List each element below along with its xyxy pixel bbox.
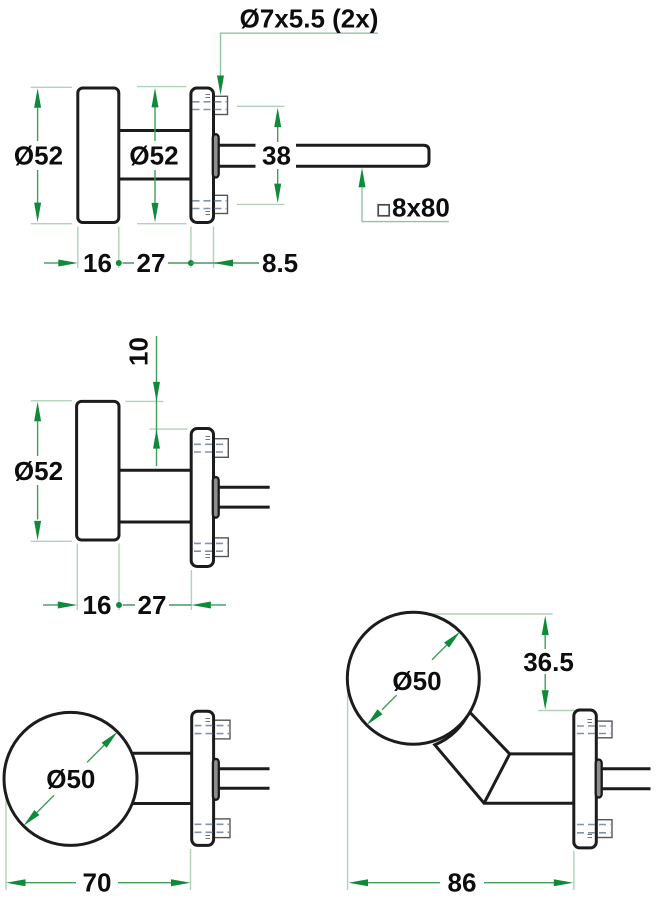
svg-text:70: 70 bbox=[83, 868, 112, 898]
wire: extension line below disc left edge bbox=[77, 227, 79, 269]
screw top (fig1) thread hidden lines bbox=[193, 101, 227, 103]
spindle hub boss (fig3) bbox=[213, 759, 219, 800]
tail line (27 dim fig2) bbox=[211, 604, 226, 606]
dimension 38 between screws: line bbox=[277, 127, 279, 185]
svg-text:Ø7x5.5 (2x): Ø7x5.5 (2x) bbox=[240, 4, 379, 34]
wire: extension line bottom of knob disc (fig2 left dim) bbox=[31, 540, 72, 542]
svg-text:Ø52: Ø52 bbox=[129, 141, 178, 171]
wire: extension line top of knob disc (fig2 left dim) bbox=[31, 400, 72, 402]
arrow up (fig1 middle dim) bbox=[152, 88, 159, 108]
screw top (fig2) body bbox=[214, 439, 229, 458]
arrow down (fig1 left dim) bbox=[34, 203, 41, 223]
dimension 16: tail and arrow bbox=[44, 262, 59, 264]
screw top (fig3) thread hidden lines bbox=[195, 725, 230, 727]
screw head mark top (fig1) bbox=[206, 95, 211, 98]
ball knob Ø50 (fig4) bbox=[347, 612, 479, 744]
leader line for spindle spec bbox=[362, 186, 449, 222]
wire: extension line below plate left (70 dim) bbox=[190, 849, 192, 890]
neck cylinder between ball and rose (fig3) bbox=[126, 755, 192, 802]
wire: extension line top of rose plate (fig1 middle dim) bbox=[137, 86, 187, 88]
screw bottom (fig3) thread hidden lines bbox=[195, 823, 230, 825]
wire: extension line below disc left edge (fig2) bbox=[76, 544, 78, 611]
wire: extension line bottom of knob disc (fig1 left dim) bbox=[31, 223, 72, 225]
leader line for screw spec bbox=[221, 33, 379, 77]
arrow lower-left (Ø50 fig3) bbox=[24, 810, 40, 826]
dimension Ø52 knob (fig2 left): line bbox=[37, 421, 39, 520]
wire: extension line from ball top (36.5 dim) bbox=[425, 613, 553, 615]
svg-text:86: 86 bbox=[448, 868, 477, 898]
dimension 36.5: lower line and arrow bbox=[544, 674, 546, 691]
leader arrow down to screw bbox=[217, 76, 224, 96]
arm bend miter line (fig4) bbox=[484, 754, 510, 803]
screw bottom (fig3) body bbox=[214, 819, 230, 838]
dimension 10 offset: line bbox=[156, 336, 158, 466]
wire: extension line below disc right edge bbox=[118, 227, 120, 269]
knob disc offset model (fig2) bbox=[77, 401, 119, 540]
rose plate (fig1) bbox=[191, 88, 214, 223]
svg-text:36.5: 36.5 bbox=[523, 647, 574, 677]
screw top (fig4) body bbox=[596, 721, 612, 738]
dimension Ø50 diagonal (fig3): line segments bbox=[37, 745, 104, 812]
spindle hub boss (fig1) bbox=[213, 134, 219, 177]
neck cylinder between knob and rose (fig1) bbox=[119, 132, 191, 178]
svg-text:Ø52: Ø52 bbox=[14, 141, 63, 171]
leader arrow up to spindle bbox=[359, 168, 366, 188]
wire: extension line bottom of rose plate (fig1 middle dim) bbox=[137, 223, 187, 225]
arrow down (fig1 middle dim) bbox=[152, 203, 159, 223]
arrow down (fig2 left dim) bbox=[34, 521, 41, 541]
svg-text:16: 16 bbox=[83, 590, 112, 620]
spindle hub boss (fig4) bbox=[596, 760, 602, 798]
arrow down (38 dim) bbox=[274, 184, 281, 204]
spindle hub boss (fig2) bbox=[213, 477, 219, 518]
screw head mark top (fig3) bbox=[206, 719, 211, 722]
dimension 8.5: arrow and tail bbox=[191, 262, 259, 264]
dimension 27 line segments (fig1) bbox=[123, 262, 191, 264]
wire: extension line below plate left (86 dim) bbox=[573, 851, 575, 890]
wire: extension line below plate left edge bbox=[190, 227, 192, 269]
screw bottom (fig1) body bbox=[214, 195, 228, 213]
rose plate (fig2) bbox=[191, 429, 213, 567]
screw head mark bottom (fig1) bbox=[206, 212, 211, 215]
arrow up to plate top (10 dim) bbox=[153, 429, 160, 449]
svg-text:8x80: 8x80 bbox=[392, 193, 450, 223]
square symbol of spindle spec bbox=[378, 205, 389, 216]
square spindle lines (fig3) bbox=[215, 770, 270, 787]
arrow up (fig1 left dim) bbox=[34, 88, 41, 108]
arrow lower-left (Ø50 fig4) bbox=[367, 709, 383, 725]
cranked arm of knob (fig4) bbox=[435, 712, 580, 803]
screw top (fig2) thread hidden lines bbox=[194, 443, 227, 445]
arrow down to disc top (10 dim) bbox=[153, 382, 160, 402]
wire: extension line top of knob disc (fig1 left dim) bbox=[31, 86, 72, 88]
wire: extension line below ball left (86 dim) bbox=[347, 688, 349, 890]
screw bottom (fig1) thread hidden lines bbox=[193, 200, 227, 202]
screw top (fig4) thread hidden lines bbox=[577, 725, 611, 727]
screw head mark top (fig4) bbox=[588, 720, 593, 723]
arrow left to plate edge (27 dim fig2) bbox=[191, 602, 211, 609]
wire: extension line below disc right edge (fig2) bbox=[118, 544, 120, 611]
node dot at 27/8.5 junction (fig1) bbox=[188, 260, 194, 266]
square spindle lines (fig2) bbox=[215, 489, 270, 506]
arrow up (38 dim) bbox=[274, 108, 281, 128]
square spindle lines (fig4) bbox=[598, 770, 651, 787]
square spindle 8x80 (fig1) bbox=[215, 145, 429, 166]
dimension 70: right arrow bbox=[171, 879, 191, 886]
dimension 86: line segments bbox=[368, 882, 555, 884]
svg-text:38: 38 bbox=[262, 141, 291, 171]
wire: extension line bottom screw centre (38 dim) bbox=[237, 203, 285, 205]
wire: extension line below plate left edge (fig2) bbox=[190, 570, 192, 610]
arrow upper-right (Ø50 fig3) bbox=[102, 732, 118, 748]
dimension Ø52 knob (fig1 left): line bbox=[37, 107, 39, 203]
svg-text:8.5: 8.5 bbox=[262, 248, 298, 278]
dimension 70: left arrow bbox=[6, 879, 26, 886]
neck cylinder between knob and rose (fig2) bbox=[119, 472, 191, 521]
ball knob Ø50 (fig3) bbox=[4, 712, 137, 845]
wire: extension line right of disc top (10 dim) bbox=[126, 400, 164, 402]
white gap in spindle for 38 text bbox=[256, 140, 297, 171]
dimension 27 line segments (fig2) bbox=[123, 604, 192, 606]
dimension 16 (fig2): tail and arrow bbox=[43, 604, 58, 606]
rose plate (fig3) bbox=[192, 711, 214, 845]
knob disc (fig1) bbox=[78, 88, 119, 223]
wire: extension line below ball left (70 dim) bbox=[5, 795, 7, 890]
screw head mark bottom (fig4) bbox=[588, 835, 593, 838]
node dot at 16/27 junction (fig1) bbox=[116, 260, 122, 266]
screw top (fig3) body bbox=[214, 720, 230, 739]
arrow up (fig2 left dim) bbox=[34, 402, 41, 422]
wire: extension line left of plate top (10 dim) bbox=[150, 428, 188, 430]
svg-text:27: 27 bbox=[137, 248, 166, 278]
screw head mark top (fig2) bbox=[206, 437, 211, 440]
wire: extension line top screw centre (38 dim) bbox=[237, 105, 285, 107]
svg-text:Ø50: Ø50 bbox=[46, 764, 95, 794]
screw head mark bottom (fig2) bbox=[206, 555, 211, 558]
node dot at 16/27 junction (fig2) bbox=[116, 602, 122, 608]
dimension 36.5: upper line and arrow bbox=[542, 616, 549, 636]
arrow upper-right (Ø50 fig4) bbox=[444, 632, 460, 648]
screw head mark bottom (fig3) bbox=[206, 836, 211, 839]
wire: extension line below plate right edge bbox=[213, 227, 215, 269]
screw bottom (fig2) thread hidden lines bbox=[194, 542, 227, 544]
svg-text:16: 16 bbox=[83, 248, 112, 278]
svg-text:Ø50: Ø50 bbox=[392, 666, 441, 696]
svg-text:Ø52: Ø52 bbox=[14, 456, 63, 486]
screw bottom (fig4) thread hidden lines bbox=[577, 824, 611, 826]
dimension 70: line segments bbox=[26, 882, 172, 884]
svg-text:10: 10 bbox=[124, 337, 154, 366]
dimension 86: left arrow bbox=[349, 879, 369, 886]
dimension Ø52 rose (fig1 middle): line bbox=[154, 107, 156, 203]
screw bottom (fig2) body bbox=[214, 538, 229, 557]
rose plate (fig4) bbox=[574, 710, 597, 848]
dimension Ø50 diagonal (fig4): line segments bbox=[382, 645, 447, 710]
wire: extension line from plate top (36.5 dim) bbox=[538, 710, 584, 712]
svg-text:27: 27 bbox=[138, 590, 167, 620]
screw bottom (fig4) body bbox=[596, 820, 612, 838]
screw top (fig1) body bbox=[214, 96, 228, 114]
dimension 86: right arrow bbox=[554, 879, 574, 886]
